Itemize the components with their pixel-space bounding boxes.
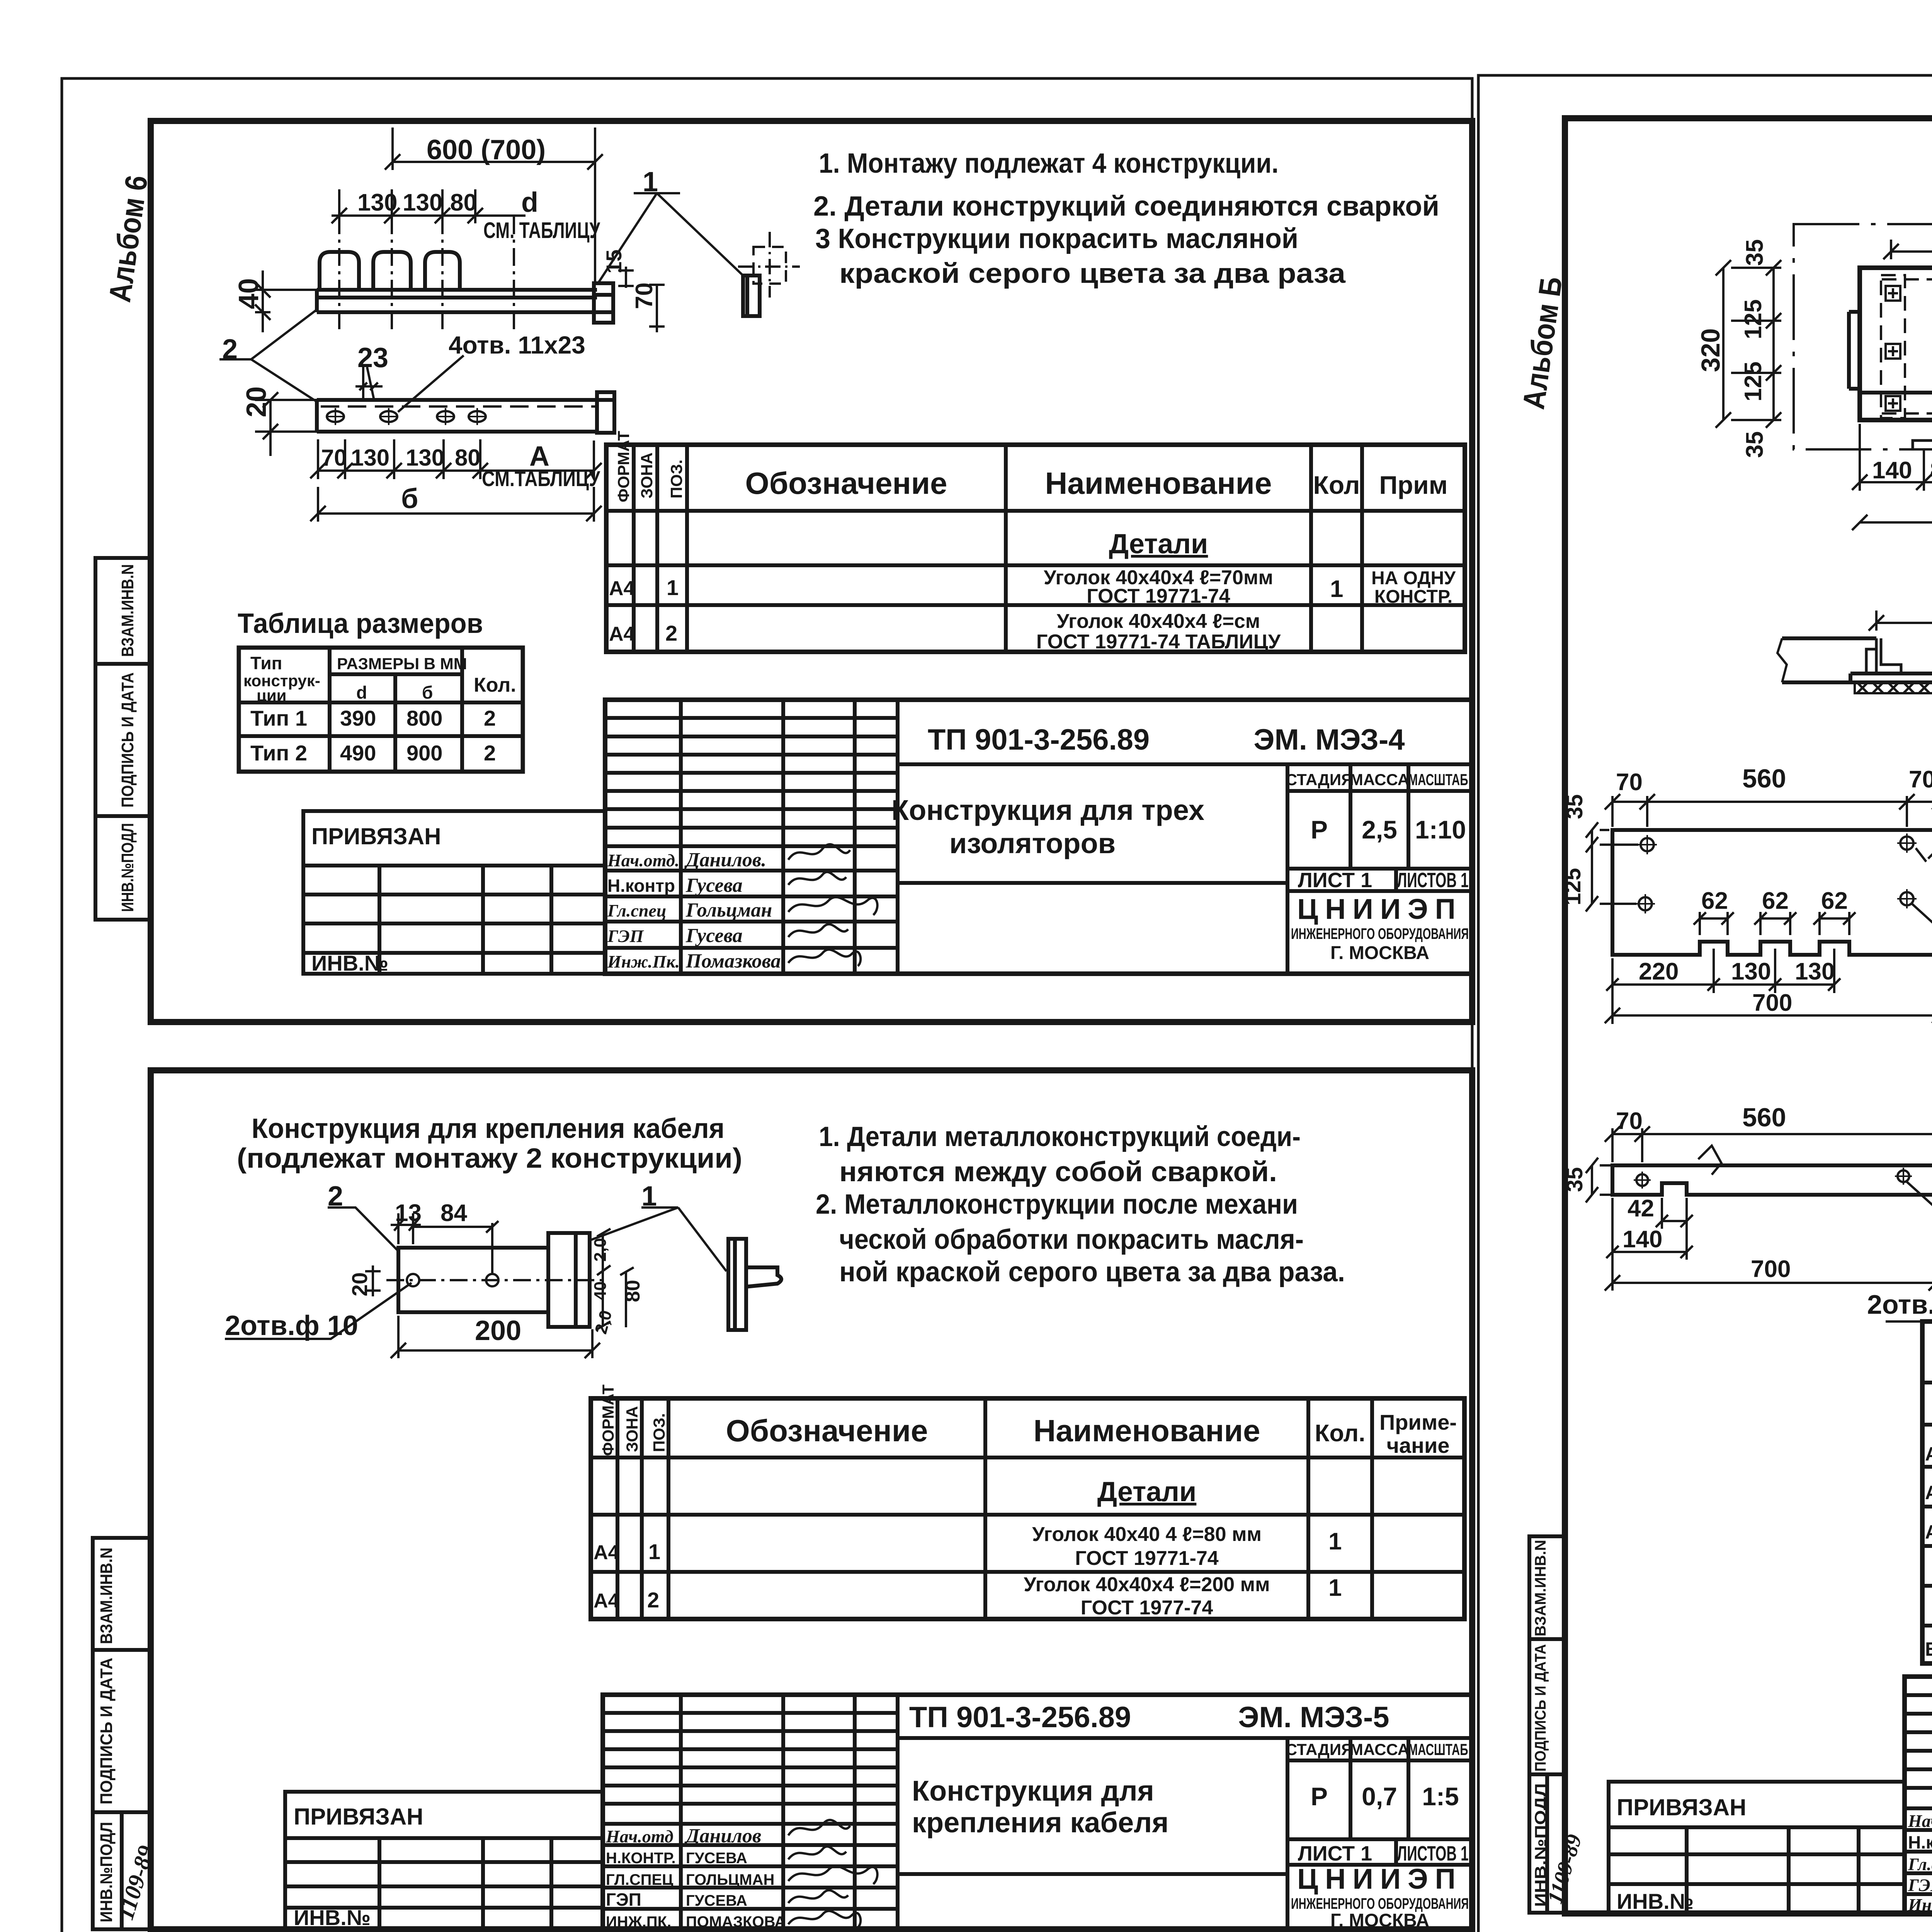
svg-text:3 Конструкции покрасить маслян: 3 Конструкции покрасить масляной: [815, 223, 1298, 254]
svg-text:70: 70: [1909, 766, 1932, 793]
svg-text:ной краской серого цвета за дв: ной краской серого цвета за два раза.: [839, 1257, 1345, 1287]
svg-text:Данилов.: Данилов.: [684, 849, 766, 871]
svg-text:А4: А4: [609, 623, 635, 645]
svg-text:Р: Р: [1311, 1782, 1328, 1811]
svg-text:560: 560: [1742, 1103, 1786, 1132]
svg-text:Конструкция для крепления кабе: Конструкция для крепления кабеля: [252, 1113, 724, 1144]
svg-text:2,0: 2,0: [591, 1238, 610, 1262]
svg-text:35: 35: [1562, 1167, 1587, 1192]
svg-text:Р: Р: [1311, 815, 1328, 844]
svg-text:ТП 901-3-256.89: ТП 901-3-256.89: [909, 1701, 1131, 1734]
svg-text:изоляторов: изоляторов: [949, 827, 1116, 859]
svg-text:40: 40: [591, 1281, 610, 1300]
svg-text:220: 220: [1639, 958, 1679, 985]
svg-text:Данилов: Данилов: [684, 1825, 761, 1847]
svg-text:Кол.: Кол.: [1315, 1420, 1366, 1447]
svg-text:Уголок 40х40х4 ℓ=200 мм: Уголок 40х40х4 ℓ=200 мм: [1024, 1573, 1270, 1596]
svg-text:Нач.отд: Нач.отд: [605, 1827, 673, 1846]
svg-text:ФОРМАТ: ФОРМАТ: [1930, 1307, 1932, 1379]
svg-text:130: 130: [406, 445, 444, 471]
svg-text:125: 125: [1740, 362, 1767, 401]
svg-text:23: 23: [357, 342, 388, 373]
svg-text:краской серого цвета за два ра: краской серого цвета за два раза: [839, 258, 1346, 289]
svg-text:130: 130: [1731, 958, 1771, 985]
svg-text:А3: А3: [1925, 1482, 1932, 1503]
svg-text:1: 1: [1328, 1528, 1342, 1555]
svg-text:62: 62: [1821, 888, 1848, 914]
svg-text:600 (700): 600 (700): [427, 134, 546, 165]
svg-text:ЦНИИЭП: ЦНИИЭП: [1297, 1863, 1463, 1895]
svg-text:2: 2: [484, 741, 496, 765]
svg-text:НА ОДНУ: НА ОДНУ: [1371, 568, 1456, 588]
svg-text:ВЗАМ.ИНВ.N: ВЗАМ.ИНВ.N: [97, 1548, 116, 1644]
svg-text:d: d: [521, 187, 538, 218]
svg-text:2: 2: [665, 621, 677, 645]
svg-text:ВЗАМ.ИНВ.N: ВЗАМ.ИНВ.N: [1532, 1540, 1549, 1636]
svg-text:1:10: 1:10: [1415, 815, 1466, 844]
svg-text:700: 700: [1751, 1256, 1791, 1282]
svg-text:ЛИСТОВ 1: ЛИСТОВ 1: [1397, 1842, 1469, 1865]
svg-text:ГОСТ 19771-74 ТАБЛИЦУ: ГОСТ 19771-74 ТАБЛИЦУ: [1036, 631, 1281, 653]
svg-text:70: 70: [321, 445, 347, 471]
svg-text:ИНВ.№: ИНВ.№: [311, 951, 388, 975]
svg-text:А4: А4: [594, 1590, 619, 1612]
svg-text:Инж.Пк.: Инж.Пк.: [607, 952, 680, 971]
svg-text:Гольцман: Гольцман: [685, 899, 772, 921]
svg-text:Детали: Детали: [1097, 1476, 1197, 1507]
svg-text:ГЭП: ГЭП: [606, 1889, 641, 1910]
svg-text:Уголок 40х40х4 ℓ=см: Уголок 40х40х4 ℓ=см: [1057, 610, 1260, 633]
svg-text:1: 1: [643, 167, 658, 197]
svg-text:(подлежат монтажу 2 конструкци: (подлежат монтажу 2 конструкции): [237, 1143, 742, 1174]
svg-text:Уголок 40х40 4 ℓ=80 мм: Уголок 40х40 4 ℓ=80 мм: [1032, 1523, 1262, 1546]
svg-text:140: 140: [1622, 1226, 1662, 1253]
svg-text:2. Металлоконструкции после ме: 2. Металлоконструкции после механи: [816, 1189, 1298, 1220]
svg-text:ИНВ.№ПОДЛ: ИНВ.№ПОДЛ: [118, 823, 137, 912]
svg-text:Б4: Б4: [1925, 1638, 1932, 1660]
svg-text:Наименование: Наименование: [1045, 466, 1272, 500]
svg-text:Инж.Пк.: Инж.Пк.: [1908, 1895, 1932, 1915]
svg-text:Н.КОНТР.: Н.КОНТР.: [606, 1850, 676, 1867]
svg-text:ции: ции: [257, 686, 286, 704]
svg-text:2: 2: [222, 334, 238, 365]
svg-text:Тип 2: Тип 2: [250, 741, 307, 765]
svg-text:42: 42: [1628, 1195, 1654, 1222]
svg-text:ПРИВЯЗАН: ПРИВЯЗАН: [311, 823, 441, 849]
svg-text:СТАДИЯ: СТАДИЯ: [1286, 1740, 1353, 1759]
svg-text:ИНЖ.ПК.: ИНЖ.ПК.: [606, 1913, 671, 1930]
svg-text:ПОЗ.: ПОЗ.: [650, 1413, 668, 1452]
svg-text:Тип 1: Тип 1: [250, 706, 307, 730]
svg-text:Нач.отд.: Нач.отд.: [607, 850, 679, 870]
svg-text:Таблица размеров: Таблица размеров: [238, 608, 483, 639]
svg-text:35: 35: [1742, 239, 1768, 266]
svg-text:130: 130: [357, 189, 397, 216]
svg-text:13: 13: [395, 1200, 422, 1226]
svg-text:ПОЗ.: ПОЗ.: [667, 459, 685, 498]
svg-text:ПРИВЯЗАН: ПРИВЯЗАН: [294, 1804, 423, 1830]
svg-text:490: 490: [340, 741, 376, 765]
svg-text:70: 70: [631, 282, 658, 309]
svg-text:1: 1: [1328, 1575, 1342, 1601]
svg-text:Конструкция для: Конструкция для: [912, 1775, 1154, 1807]
svg-text:40: 40: [233, 278, 264, 309]
svg-text:ИНВ.№: ИНВ.№: [1617, 1889, 1694, 1913]
svg-text:Наименование: Наименование: [1034, 1413, 1260, 1448]
svg-text:Прим: Прим: [1379, 471, 1447, 499]
svg-text:ИНВ.№ПОДЛ: ИНВ.№ПОДЛ: [97, 1822, 116, 1922]
svg-text:ПОДПИСЬ И ДАТА: ПОДПИСЬ И ДАТА: [1532, 1644, 1549, 1772]
svg-text:ГОСТ 19771-74: ГОСТ 19771-74: [1087, 585, 1230, 607]
svg-text:Гусева: Гусева: [685, 925, 743, 947]
svg-text:ПОДПИСЬ И ДАТА: ПОДПИСЬ И ДАТА: [118, 672, 137, 808]
svg-text:1:5: 1:5: [1422, 1782, 1459, 1811]
svg-text:4отв. 11х23: 4отв. 11х23: [449, 331, 585, 359]
svg-text:1: 1: [648, 1539, 660, 1564]
svg-text:1. Детали металлоконструкций с: 1. Детали металлоконструкций соеди-: [819, 1121, 1301, 1152]
svg-text:15: 15: [602, 250, 626, 274]
svg-text:20: 20: [347, 1272, 372, 1296]
svg-text:Г. МОСКВА: Г. МОСКВА: [1330, 1910, 1429, 1931]
svg-text:МАСШТАБ: МАСШТАБ: [1408, 1740, 1468, 1759]
svg-text:Детали: Детали: [1109, 529, 1208, 560]
svg-text:125: 125: [1740, 299, 1767, 339]
svg-text:ЭМ. МЭЗ-4: ЭМ. МЭЗ-4: [1253, 723, 1405, 756]
svg-text:0,7: 0,7: [1362, 1782, 1397, 1811]
svg-text:РАЗМЕРЫ В ММ: РАЗМЕРЫ В ММ: [337, 655, 467, 673]
svg-text:80: 80: [450, 189, 477, 216]
svg-text:2: 2: [328, 1181, 343, 1212]
svg-text:А3: А3: [1925, 1521, 1932, 1543]
svg-text:ЗОНА: ЗОНА: [623, 1406, 641, 1452]
svg-text:ГЭП: ГЭП: [607, 926, 644, 946]
svg-text:ПРИВЯЗАН: ПРИВЯЗАН: [1617, 1794, 1746, 1820]
svg-text:Обозначение: Обозначение: [745, 466, 947, 500]
svg-text:ПОМАЗКОВА: ПОМАЗКОВА: [686, 1913, 786, 1930]
svg-text:80: 80: [1930, 457, 1932, 484]
svg-text:ГОЛЬЦМАН: ГОЛЬЦМАН: [686, 1871, 774, 1888]
svg-text:ГОСТ 1977-74: ГОСТ 1977-74: [1081, 1597, 1213, 1619]
svg-text:130: 130: [351, 445, 389, 471]
svg-text:ЗОНА: ЗОНА: [638, 452, 656, 498]
svg-text:Г. МОСКВА: Г. МОСКВА: [1330, 943, 1429, 963]
svg-text:2отв.ф 10: 2отв.ф 10: [225, 1310, 358, 1341]
svg-text:Тип: Тип: [250, 653, 282, 673]
svg-text:1: 1: [667, 575, 679, 600]
svg-text:ГЛ.СПЕЦ: ГЛ.СПЕЦ: [606, 1871, 673, 1888]
svg-text:35: 35: [1562, 794, 1587, 819]
svg-text:2отв. ф 11: 2отв. ф 11: [1867, 1289, 1932, 1320]
svg-text:А4: А4: [594, 1541, 619, 1564]
svg-text:Н.контр: Н.контр: [1908, 1832, 1932, 1852]
svg-text:СМ.ТАБЛИЦУ: СМ.ТАБЛИЦУ: [482, 466, 600, 491]
svg-text:1. Монтажу подлежат 4 конструк: 1. Монтажу подлежат 4 конструкции.: [819, 148, 1279, 179]
svg-text:ИНЖЕНЕРНОГО ОБОРУДОВАНИЯ: ИНЖЕНЕРНОГО ОБОРУДОВАНИЯ: [1291, 925, 1469, 942]
svg-text:ЛИСТОВ 1: ЛИСТОВ 1: [1397, 869, 1469, 892]
svg-text:ЛИСТ 1: ЛИСТ 1: [1298, 869, 1372, 892]
svg-text:130: 130: [1795, 958, 1835, 985]
svg-text:МАССА: МАССА: [1350, 1740, 1409, 1759]
svg-text:84: 84: [440, 1200, 467, 1226]
svg-text:200: 200: [475, 1315, 521, 1346]
svg-text:ЦНИИЭП: ЦНИИЭП: [1297, 893, 1463, 925]
svg-text:320: 320: [1696, 328, 1725, 372]
svg-text:700: 700: [1752, 990, 1792, 1016]
svg-text:80: 80: [455, 445, 481, 471]
svg-text:Гусева: Гусева: [685, 874, 743, 896]
svg-text:80: 80: [622, 1280, 644, 1302]
svg-text:МАССА: МАССА: [1350, 770, 1409, 789]
svg-text:2: 2: [484, 706, 496, 730]
svg-text:ческой обработки покрасить мас: ческой обработки покрасить масля-: [839, 1224, 1304, 1255]
svg-text:Гл.спец: Гл.спец: [607, 901, 666, 920]
svg-text:крепления кабеля: крепления кабеля: [912, 1806, 1168, 1838]
svg-text:900: 900: [406, 741, 442, 765]
svg-text:130: 130: [403, 189, 442, 216]
svg-text:1: 1: [641, 1181, 657, 1212]
svg-text:Конструкция для трех: Конструкция для трех: [891, 794, 1204, 826]
svg-text:ГЭП: ГЭП: [1908, 1875, 1932, 1895]
svg-text:35: 35: [1742, 431, 1768, 458]
svg-text:d: d: [356, 682, 367, 702]
svg-text:Приме-: Приме-: [1379, 1410, 1457, 1434]
svg-text:62: 62: [1762, 888, 1789, 914]
svg-text:125: 125: [1560, 868, 1585, 905]
svg-text:Кол.: Кол.: [474, 674, 516, 696]
svg-text:ТП 901-3-256.89: ТП 901-3-256.89: [928, 723, 1150, 756]
svg-text:ГОСТ 19771-74: ГОСТ 19771-74: [1075, 1547, 1219, 1570]
svg-text:20: 20: [241, 386, 272, 417]
svg-text:70: 70: [1616, 769, 1643, 796]
svg-text:2: 2: [647, 1588, 659, 1612]
svg-text:ФОРМАТ: ФОРМАТ: [599, 1384, 617, 1456]
svg-text:Н.контр: Н.контр: [607, 876, 675, 896]
svg-text:КОНСТР.: КОНСТР.: [1374, 587, 1452, 607]
svg-text:Гл.спец: Гл.спец: [1908, 1854, 1932, 1874]
svg-text:Нач.отд: Нач.отд: [1908, 1811, 1932, 1831]
svg-text:800: 800: [406, 706, 442, 730]
svg-text:Кол: Кол: [1313, 471, 1360, 499]
svg-text:Помазкова: Помазкова: [685, 950, 781, 972]
svg-text:ИНВ.№: ИНВ.№: [294, 1905, 371, 1930]
svg-text:МАСШТАБ: МАСШТАБ: [1408, 770, 1468, 789]
svg-text:ФОРМАТ: ФОРМАТ: [614, 431, 633, 502]
svg-text:Обозначение: Обозначение: [726, 1413, 928, 1448]
svg-text:А3: А3: [1925, 1443, 1932, 1465]
svg-text:62: 62: [1701, 888, 1728, 914]
svg-text:СТАДИЯ: СТАДИЯ: [1286, 770, 1353, 789]
svg-text:СМ. ТАБЛИЦУ: СМ. ТАБЛИЦУ: [483, 218, 600, 243]
svg-text:ЭМ. МЭЗ-5: ЭМ. МЭЗ-5: [1238, 1701, 1389, 1734]
svg-text:390: 390: [340, 706, 376, 730]
svg-text:ГУСЕВА: ГУСЕВА: [686, 1892, 747, 1909]
svg-text:560: 560: [1742, 764, 1786, 793]
svg-text:2. Детали конструкций соединяю: 2. Детали конструкций соединяются сварко…: [813, 191, 1439, 222]
svg-text:140: 140: [1872, 457, 1912, 484]
svg-text:б: б: [401, 483, 418, 514]
svg-text:ЛИСТ 1: ЛИСТ 1: [1298, 1842, 1372, 1865]
svg-text:няются между собой сваркой.: няются между собой сваркой.: [839, 1156, 1277, 1187]
svg-text:2,5: 2,5: [1362, 815, 1397, 844]
svg-text:ГУСЕВА: ГУСЕВА: [686, 1850, 747, 1867]
svg-text:ИНЖЕНЕРНОГО ОБОРУДОВАНИЯ: ИНЖЕНЕРНОГО ОБОРУДОВАНИЯ: [1291, 1895, 1469, 1912]
svg-text:чание: чание: [1386, 1433, 1449, 1458]
svg-text:А4: А4: [609, 577, 635, 600]
svg-text:1: 1: [1330, 576, 1343, 602]
svg-text:б: б: [422, 682, 433, 702]
svg-text:70: 70: [1616, 1108, 1643, 1134]
svg-text:ПОДПИСЬ И ДАТА: ПОДПИСЬ И ДАТА: [97, 1658, 116, 1804]
svg-text:ВЗАМ.ИНВ.N: ВЗАМ.ИНВ.N: [118, 564, 137, 657]
